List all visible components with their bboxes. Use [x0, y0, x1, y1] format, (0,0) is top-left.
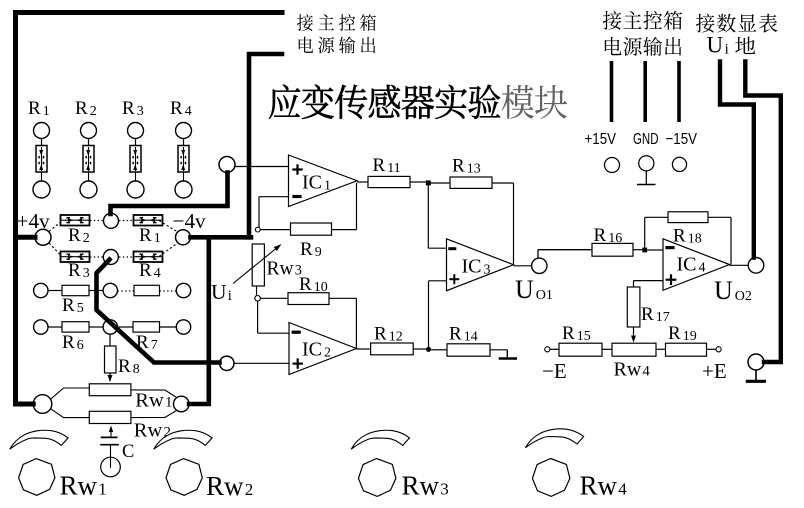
node row3 mid: [103, 283, 117, 297]
Rw3 wiper arrow: [233, 244, 282, 284]
junction Rw3 bottom: [255, 296, 261, 302]
terminal Ui- (IC2 input): [220, 356, 234, 370]
label 接主控箱 (left): [297, 14, 376, 31]
potentiometer Rw4: [602, 343, 666, 380]
bridge arm R2 (top-left): [61, 215, 90, 246]
cable: ground terminal cable: [745, 62, 781, 363]
node bridge top: [104, 213, 119, 228]
wires pot loop: [50, 388, 178, 418]
label 接主控箱 (right): [603, 11, 682, 30]
wire IC1 +input: [235, 166, 289, 168]
resistor R12: [356, 324, 426, 355]
svg-text:Rw3: Rw3: [267, 259, 302, 280]
power stub +15V: [610, 61, 614, 122]
cable: -4v rail to pot loop right: [189, 239, 209, 404]
terminal UO1: [515, 258, 553, 304]
resistor R8: [105, 335, 140, 383]
terminal -E: [542, 347, 567, 383]
bridge arm R1 (top-right): [134, 215, 163, 246]
op-amp IC3: [447, 239, 514, 291]
capacitor C: [100, 437, 134, 461]
wire IC1 -input to junction: [259, 197, 289, 227]
knob Rw1: [19, 459, 107, 501]
potentiometer Rw1: [89, 384, 172, 412]
cable: Ui terminal to UO2: [720, 62, 754, 258]
arc mark above knob Rw2: [154, 430, 212, 449]
junction C: [642, 248, 647, 253]
terminal +4v: [35, 229, 51, 245]
title 应变传感器实验模块: [269, 84, 567, 119]
resistor R19: [666, 323, 717, 356]
svg-text:GND: GND: [633, 131, 659, 148]
node bridge bottom: [103, 250, 118, 265]
resistor R5: [49, 285, 104, 316]
wire IC2 -input: [258, 301, 289, 333]
resistor R14: [431, 324, 507, 357]
terminal +E: [702, 347, 727, 383]
knob Rw4: [532, 459, 627, 501]
svg-text:−E: −E: [542, 359, 567, 383]
terminal Ui+ (IC1 input): [219, 157, 235, 173]
ground at R14: [499, 350, 517, 359]
resistor R11: [357, 155, 426, 188]
knob Rw3: [358, 459, 448, 501]
terminal row3 right: [176, 283, 190, 297]
potentiometer Rw2: [89, 411, 171, 441]
terminal UO2: [714, 258, 764, 306]
wire junction A to IC3 -input: [428, 185, 446, 248]
junction A: [426, 180, 431, 185]
wire IC3 output: [514, 265, 532, 267]
terminal pot-loop left: [33, 395, 52, 414]
svg-text:C: C: [122, 442, 134, 462]
wire IC2 +input: [234, 362, 289, 364]
svg-text:+E: +E: [702, 359, 727, 383]
terminal -4v: [176, 230, 191, 245]
resistor R16: [592, 225, 642, 256]
arc mark above knob Rw3: [351, 430, 409, 449]
op-amp IC1: [289, 155, 358, 207]
strain gauge R1 with terminals: [28, 98, 50, 198]
wire UO1 to R16: [538, 250, 592, 259]
cable: master box output 1 to +4v and pot loop (left border): [16, 13, 283, 405]
label 接数显表: [696, 14, 777, 33]
cable: bridge bottom node to Ui- terminal: [97, 260, 220, 363]
terminal -15V: [672, 157, 686, 171]
terminal ground (bottom right): [746, 354, 766, 381]
strain gauge R3 with terminals: [122, 98, 144, 198]
terminal +15V: [605, 158, 620, 173]
terminal row4 left: [34, 320, 48, 334]
terminal row4 right: [176, 320, 190, 334]
resistor R6: [49, 322, 104, 353]
resistor R15: [550, 323, 602, 356]
resistor row3-right (unlabeled): [118, 285, 178, 295]
potentiometer Rw3 (vertical): [252, 244, 302, 296]
bridge arm R4 (bottom-right): [134, 252, 163, 282]
svg-text:−4v: −4v: [173, 209, 207, 233]
label 地: [735, 37, 755, 55]
power stub -15V: [677, 61, 681, 122]
wire Rw2 wiper: [109, 426, 113, 438]
terminal pot-loop right: [174, 396, 190, 412]
wire C to terminal: [110, 445, 112, 468]
wire IC4 +input to R17: [634, 281, 664, 287]
arc mark above knob Rw1: [10, 430, 68, 449]
resistor R17: [627, 287, 669, 343]
op-amp IC2: [289, 323, 356, 375]
label 电源输出 (left): [299, 36, 376, 53]
svg-text:+15V: +15V: [585, 131, 617, 148]
wire IC4 output: [730, 264, 749, 266]
bridge dashed connections: [49, 221, 177, 258]
resistor R7: [118, 322, 178, 353]
bridge arm R3 (bottom-left): [61, 252, 90, 282]
cable: master box output 2 to -4v: [191, 54, 283, 237]
label 电源输出 (right): [605, 37, 682, 56]
resistor R10: [260, 274, 356, 348]
wire junction C to IC4 -input: [647, 249, 663, 251]
terminal row3 left: [34, 283, 48, 297]
resistor R9: [260, 183, 356, 260]
strain gauge R2 with terminals: [75, 98, 97, 198]
wire junction B to IC3 +input: [429, 281, 447, 347]
resistor R13: [431, 156, 514, 265]
strain gauge R4 with terminals: [170, 98, 192, 198]
svg-text:−15V: −15V: [666, 131, 698, 148]
terminal below C: [101, 457, 121, 477]
node row4 mid: [103, 320, 117, 334]
terminal GND with ground: [637, 156, 656, 185]
junction B: [426, 347, 431, 352]
knob Rw2: [166, 459, 253, 501]
power stub GND: [643, 61, 647, 122]
arc mark above knob Rw4: [525, 429, 583, 448]
resistor R18 (feedback): [645, 212, 731, 265]
junction Rw3 top: [255, 227, 260, 232]
op-amp IC4: [663, 239, 730, 290]
cable: bridge top node to Ui+ terminal: [111, 173, 228, 215]
